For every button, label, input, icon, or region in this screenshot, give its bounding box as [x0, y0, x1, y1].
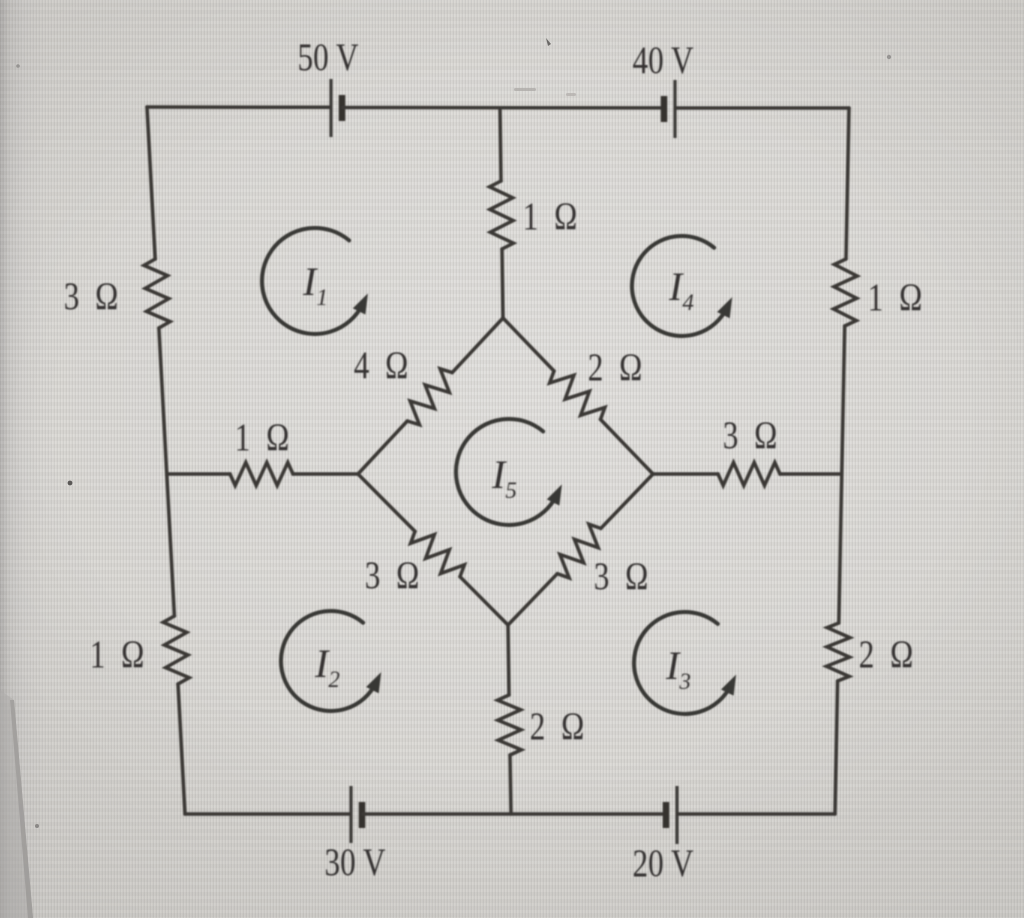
label 20 V [633, 842, 694, 885]
label 30 V [325, 841, 386, 884]
faint smudge top-center b [566, 93, 576, 96]
wire diamond top-right lower part [601, 419, 654, 474]
wire mid-bottom lower segment [510, 755, 511, 814]
resistor R-1ohm mid-left [230, 463, 293, 486]
wire diamond bottom-right lower part [508, 574, 557, 625]
label 1 ohm left-bottom [90, 633, 149, 676]
wire bottom-middle segment [363, 812, 665, 816]
wire diamond bottom-left upper part [358, 474, 415, 531]
resistor R-2ohm mid-bottom [498, 695, 522, 755]
battery V4 20V short plate [663, 802, 670, 828]
resistor R-3ohm diamond-right [557, 524, 601, 578]
label 1 ohm right-top [868, 276, 927, 319]
wire top-middle segment [343, 106, 663, 110]
wire left middle segment [159, 328, 175, 616]
label 2 ohm mid-bottom [530, 705, 589, 748]
wire left lower segment [178, 684, 185, 814]
battery V2 40V long plate [673, 80, 676, 138]
label 2 ohm diamond [588, 346, 647, 389]
wire mid-right segment a [653, 472, 718, 476]
label 2 ohm right-bottom [859, 633, 918, 676]
label 3 ohm mid-right [723, 414, 782, 457]
wire diamond top-left upper part [452, 318, 503, 373]
wire top-left segment [147, 105, 330, 109]
battery V1 50V short plate [339, 95, 346, 121]
mesh loop arrow I5 [456, 419, 557, 525]
label 3 ohm diamond-right [594, 555, 653, 598]
label 1 ohm mid-left [235, 416, 294, 459]
wire diamond bottom-left lower part [460, 577, 508, 625]
resistor R-4ohm diamond [407, 369, 452, 425]
label 1 ohm mid-top [523, 195, 582, 238]
resistor R-2ohm right-bottom [826, 623, 850, 681]
wire right middle segment [839, 326, 845, 623]
resistor R-3ohm mid-right [718, 463, 780, 486]
wire diamond top-right upper part [503, 318, 554, 371]
resistor R-3ohm left [144, 259, 170, 328]
mesh loop arrow I3 [634, 612, 731, 714]
small speck top-left [16, 64, 20, 68]
wire mid-top lower segment [502, 249, 503, 318]
small speck bottom-left [35, 824, 39, 828]
wire right upper segment [846, 108, 849, 259]
wire mid-top upper segment [500, 108, 501, 181]
wire bottom-right segment [678, 812, 835, 816]
wire bottom-left segment [185, 812, 350, 816]
small speck top-right [887, 55, 891, 59]
resistor R-2ohm diamond [550, 371, 605, 419]
wire mid-left segment b [293, 472, 358, 476]
wire mid-left segment a [167, 472, 230, 476]
battery V3 30V long plate [349, 786, 352, 843]
resistor R-1ohm left-bottom [163, 616, 189, 684]
small speck top-center [546, 38, 551, 46]
darker sliver left of screen edge [0, 690, 33, 918]
resistor R-1ohm mid-top [490, 181, 514, 249]
wire mid-right segment b [780, 472, 842, 476]
label 3 ohm diamond-left [365, 554, 424, 597]
label 3 ohm left [64, 275, 123, 318]
wire mid-bottom upper segment [508, 625, 509, 695]
small speck left-middle [68, 481, 73, 486]
battery V2 40V short plate [661, 96, 668, 122]
mesh loop arrow I4 [632, 236, 727, 336]
label 40 V [633, 39, 694, 82]
faint smudge top-center a [514, 88, 536, 91]
battery V3 30V short plate [359, 802, 366, 828]
battery V4 20V long plate [675, 786, 678, 844]
label 4 ohm diamond [354, 344, 413, 387]
battery V1 50V long plate [329, 79, 332, 137]
resistor R-3ohm diamond-left [411, 531, 465, 576]
resistor R-1ohm right-top [834, 259, 858, 326]
label 50 V [298, 36, 359, 79]
wire diamond bottom-right upper part [601, 474, 653, 528]
screen edge diagonal bottom-left [10, 700, 33, 918]
wire right lower segment [835, 681, 838, 814]
mesh loop arrow I1 [262, 228, 363, 334]
mesh loop arrow I2 [281, 611, 376, 711]
wire top-right segment [676, 106, 849, 110]
wire diamond top-left lower part [358, 421, 407, 474]
wire left upper segment [147, 107, 155, 259]
